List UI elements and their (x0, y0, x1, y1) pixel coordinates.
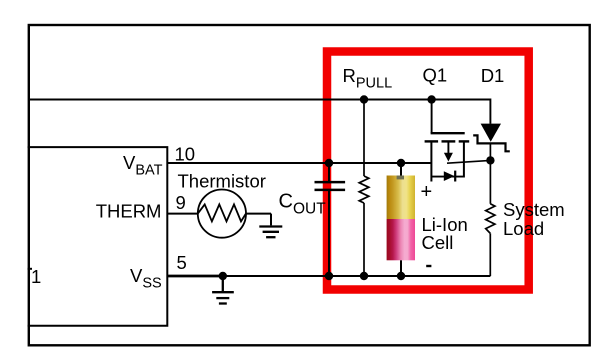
node rail / battery - (397, 272, 405, 280)
thermistor (198, 190, 246, 238)
wire THERM pin to thermistor (167, 213, 198, 215)
wire bottom rail (223, 275, 491, 277)
node rail / RPULL (360, 272, 368, 280)
op-amp U1 (charger IC box, cropped at left frame) (28, 147, 168, 326)
svg-text:Cell: Cell (422, 232, 454, 253)
node VBAT / COUT (325, 159, 333, 167)
wire top rail to Q1 gate and D1 (29, 100, 491, 124)
wire thermistor to ground (246, 213, 271, 215)
red highlight box (327, 52, 529, 290)
svg-text:Q1: Q1 (423, 64, 448, 85)
svg-text:1: 1 (31, 266, 41, 287)
wire VBAT pin to Q1 (167, 162, 431, 164)
ground (thermistor) (259, 214, 282, 238)
transistor Q1 (P-MOSFET) (425, 100, 470, 182)
node VSS / ground (219, 272, 227, 280)
pin 1 stub on frame (28, 268, 33, 270)
resistor system load (486, 204, 495, 234)
battery Li-Ion cell (387, 163, 415, 276)
battery - label (426, 265, 431, 267)
node top rail / RPULL (360, 95, 368, 103)
node rail / COUT (325, 272, 333, 280)
wire VSS pin segment (167, 275, 223, 278)
node top rail / Q1 gate (427, 95, 435, 103)
capacitor COUT (315, 163, 346, 276)
resistor RPULL (359, 100, 369, 277)
svg-text:9: 9 (176, 192, 186, 213)
svg-text:Thermistor: Thermistor (178, 170, 266, 191)
wire Q1 source node to D1 node (447, 160, 490, 163)
ground (VSS) (212, 276, 234, 304)
node D1 cathode (486, 156, 494, 164)
diode body of Q1 (431, 171, 464, 182)
node VBAT / battery + (397, 159, 405, 167)
diode D1 (Schottky) (473, 124, 510, 204)
svg-text:THERM: THERM (96, 201, 162, 222)
svg-text:5: 5 (177, 252, 187, 273)
wire system load bottom riser (489, 233, 491, 276)
svg-text:10: 10 (175, 144, 196, 165)
svg-text:System: System (503, 199, 565, 220)
svg-text:D1: D1 (481, 65, 505, 86)
svg-text:Load: Load (503, 218, 544, 239)
svg-text:+: + (421, 181, 433, 203)
